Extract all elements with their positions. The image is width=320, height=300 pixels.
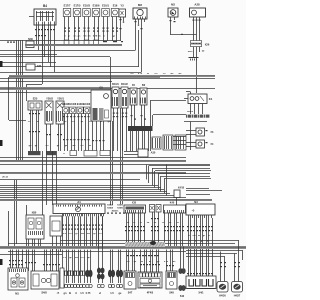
svg-text:M1: M1 (15, 292, 19, 296)
svg-text:gr: gr (63, 271, 65, 273)
svg-text:sw: sw (193, 235, 196, 237)
svg-text:H4/26: H4/26 (219, 295, 226, 298)
svg-text:B4: B4 (43, 4, 47, 8)
svg-text:E17/5: E17/5 (74, 4, 81, 8)
svg-text:sw: sw (75, 257, 78, 259)
svg-text:X35: X35 (37, 65, 42, 68)
svg-text:gr: gr (203, 235, 205, 237)
svg-text:E16: E16 (113, 4, 118, 8)
svg-text:rt: rt (64, 35, 66, 38)
svg-text:W10: W10 (188, 51, 193, 53)
svg-text:S4/8: S4/8 (41, 291, 47, 295)
svg-text:M3: M3 (171, 3, 175, 7)
svg-text:gr: gr (75, 233, 77, 235)
svg-text:X35/6: X35/6 (117, 208, 123, 210)
svg-text:X4/10: X4/10 (178, 187, 185, 190)
svg-text:E10/3: E10/3 (83, 4, 90, 8)
svg-text:K40: K40 (170, 202, 175, 205)
svg-text:E10/1: E10/1 (102, 4, 109, 8)
svg-text:rt: rt (189, 240, 191, 243)
svg-text:30 15: 30 15 (2, 177, 8, 179)
svg-text:X26/3: X26/3 (187, 111, 194, 113)
svg-text:A1: A1 (77, 200, 81, 204)
svg-text:rt: rt (188, 234, 190, 237)
svg-text:A28: A28 (194, 3, 200, 7)
svg-text:S48: S48 (169, 292, 174, 295)
svg-text:vi: vi (99, 292, 101, 295)
svg-text:S47: S47 (128, 292, 133, 295)
svg-text:Y26/2: Y26/2 (46, 97, 53, 101)
svg-text:N3: N3 (194, 200, 198, 204)
svg-text:X4/1: X4/1 (198, 292, 204, 295)
svg-text:br: br (207, 241, 209, 243)
svg-text:gr: gr (68, 36, 70, 38)
svg-text:G8: G8 (99, 86, 103, 90)
svg-text:X35/2: X35/2 (107, 205, 113, 207)
svg-text:E10/6: E10/6 (93, 4, 100, 8)
svg-text:M2: M2 (138, 3, 142, 7)
svg-text:1.5: 1.5 (110, 292, 114, 295)
svg-text:rt: rt (103, 35, 105, 38)
svg-text:X26: X26 (205, 43, 210, 47)
svg-text:K1: K1 (209, 97, 213, 101)
svg-text:0.75: 0.75 (86, 292, 91, 295)
svg-text:br: br (195, 241, 197, 243)
svg-text:Y3: Y3 (120, 4, 124, 8)
svg-text:1.5: 1.5 (80, 292, 84, 295)
svg-text:bl: bl (69, 292, 72, 295)
svg-text:E25: E25 (33, 97, 38, 101)
svg-text:E17/7: E17/7 (64, 4, 71, 8)
svg-text:A30: A30 (151, 151, 156, 155)
svg-text:4F4/5: 4F4/5 (147, 292, 154, 295)
svg-text:br: br (149, 261, 151, 263)
svg-text:S10: S10 (180, 295, 185, 298)
svg-text:sw: sw (81, 233, 84, 235)
svg-text:X35/4: X35/4 (107, 207, 113, 210)
svg-text:B10/2: B10/2 (121, 83, 128, 86)
svg-text:X35/9: X35/9 (117, 205, 123, 207)
svg-text:B10/1: B10/1 (112, 83, 119, 86)
svg-text:E10/2: E10/2 (83, 102, 90, 106)
svg-text:X35: X35 (132, 202, 137, 205)
svg-text:gr: gr (93, 233, 95, 235)
svg-text:gn: gn (63, 292, 67, 295)
svg-text:E10/6: E10/6 (69, 102, 76, 106)
svg-text:H4/27: H4/27 (234, 295, 241, 298)
svg-text:X35/11: X35/11 (112, 211, 120, 213)
svg-text:-0: -0 (192, 209, 195, 213)
svg-text:rt: rt (75, 292, 77, 295)
svg-text:Y26/1: Y26/1 (57, 97, 64, 101)
svg-text:N30: N30 (32, 212, 37, 215)
